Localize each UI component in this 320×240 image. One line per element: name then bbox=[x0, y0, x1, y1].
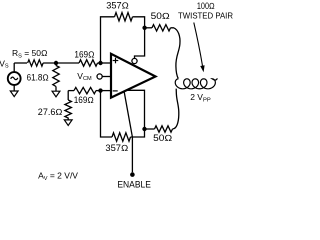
wire output node down to op-amp inverting output bubble bbox=[135, 28, 145, 59]
wire 169 top to +input bbox=[98, 62, 112, 64]
node -input junction dot bbox=[98, 88, 102, 92]
resistor RS bbox=[28, 60, 43, 66]
voltage source VS bbox=[8, 63, 21, 91]
ground below 27.6 bbox=[64, 120, 72, 126]
wire 169 bottom to -input bbox=[96, 90, 111, 92]
wire bottom output node to 50 bottom bbox=[145, 128, 155, 130]
svg-text:27.6Ω: 27.6Ω bbox=[38, 107, 63, 117]
op-amp inverting output bubble bbox=[132, 58, 137, 63]
svg-text:2 VPP: 2 VPP bbox=[190, 92, 211, 104]
twisted pair coil bbox=[175, 78, 217, 88]
node +input junction dot bbox=[98, 61, 102, 65]
svg-text:357Ω: 357Ω bbox=[106, 1, 129, 11]
wire 50 bottom to twisted pair bbox=[173, 89, 179, 129]
ground below 61.8 bbox=[52, 91, 60, 97]
svg-text:50Ω: 50Ω bbox=[153, 133, 172, 143]
wire -node down to bottom feedback rail bbox=[101, 91, 113, 137]
resistor 61.8 ohm bbox=[53, 66, 59, 87]
svg-text:TWISTED PAIR: TWISTED PAIR bbox=[178, 11, 233, 21]
svg-text:100Ω: 100Ω bbox=[197, 1, 215, 11]
wire 50 top to twisted pair bbox=[171, 28, 181, 79]
svg-text:50Ω: 50Ω bbox=[151, 11, 170, 21]
resistor 357 ohm bottom bbox=[112, 133, 131, 141]
ENABLE pin line bbox=[124, 91, 132, 172]
wire 357 bottom to bottom output node bbox=[131, 129, 145, 137]
wire 357 top to output node bbox=[133, 17, 145, 28]
wire RS to node A bbox=[43, 62, 79, 64]
op-amp U1 bbox=[111, 54, 156, 98]
svg-text:169Ω: 169Ω bbox=[74, 95, 94, 105]
resistor 169 ohm top bbox=[79, 60, 98, 66]
wire node A down to 61.8 bbox=[55, 63, 57, 66]
resistor 357 ohm top bbox=[115, 13, 133, 21]
wire +node up to top feedback rail bbox=[101, 17, 115, 63]
node A junction dot bbox=[54, 61, 58, 65]
svg-text:ENABLE: ENABLE bbox=[117, 180, 150, 190]
svg-text:RS = 50Ω: RS = 50Ω bbox=[12, 48, 48, 59]
VCM terminal bbox=[97, 74, 111, 79]
arrow from label to twisted pair bbox=[194, 23, 205, 73]
resistor 50 ohm top bbox=[152, 25, 171, 31]
svg-text:357Ω: 357Ω bbox=[105, 143, 128, 153]
resistor 50 ohm bottom bbox=[155, 126, 173, 132]
ground below VS bbox=[10, 91, 18, 97]
wire VS to RS bbox=[14, 62, 27, 64]
node top output junction dot bbox=[142, 26, 146, 30]
svg-text:VS: VS bbox=[0, 58, 9, 69]
svg-text:VCM: VCM bbox=[77, 71, 92, 82]
ENABLE terminal dot bbox=[130, 172, 135, 177]
wire 61.8 to ground bbox=[55, 87, 57, 92]
resistor 27.6 ohm bbox=[65, 91, 72, 120]
svg-text:AV = 2 V/V: AV = 2 V/V bbox=[38, 170, 78, 181]
wire 27.6 to 169 bottom bbox=[68, 90, 74, 92]
resistor 169 ohm bottom bbox=[74, 87, 96, 93]
wire bottom output node up to op-amp noninverting output pin bbox=[126, 90, 144, 129]
wire output node to 50 top bbox=[145, 27, 152, 29]
svg-text:169Ω: 169Ω bbox=[74, 49, 94, 59]
node bottom output junction dot bbox=[142, 127, 146, 131]
svg-text:61.8Ω: 61.8Ω bbox=[27, 73, 49, 83]
